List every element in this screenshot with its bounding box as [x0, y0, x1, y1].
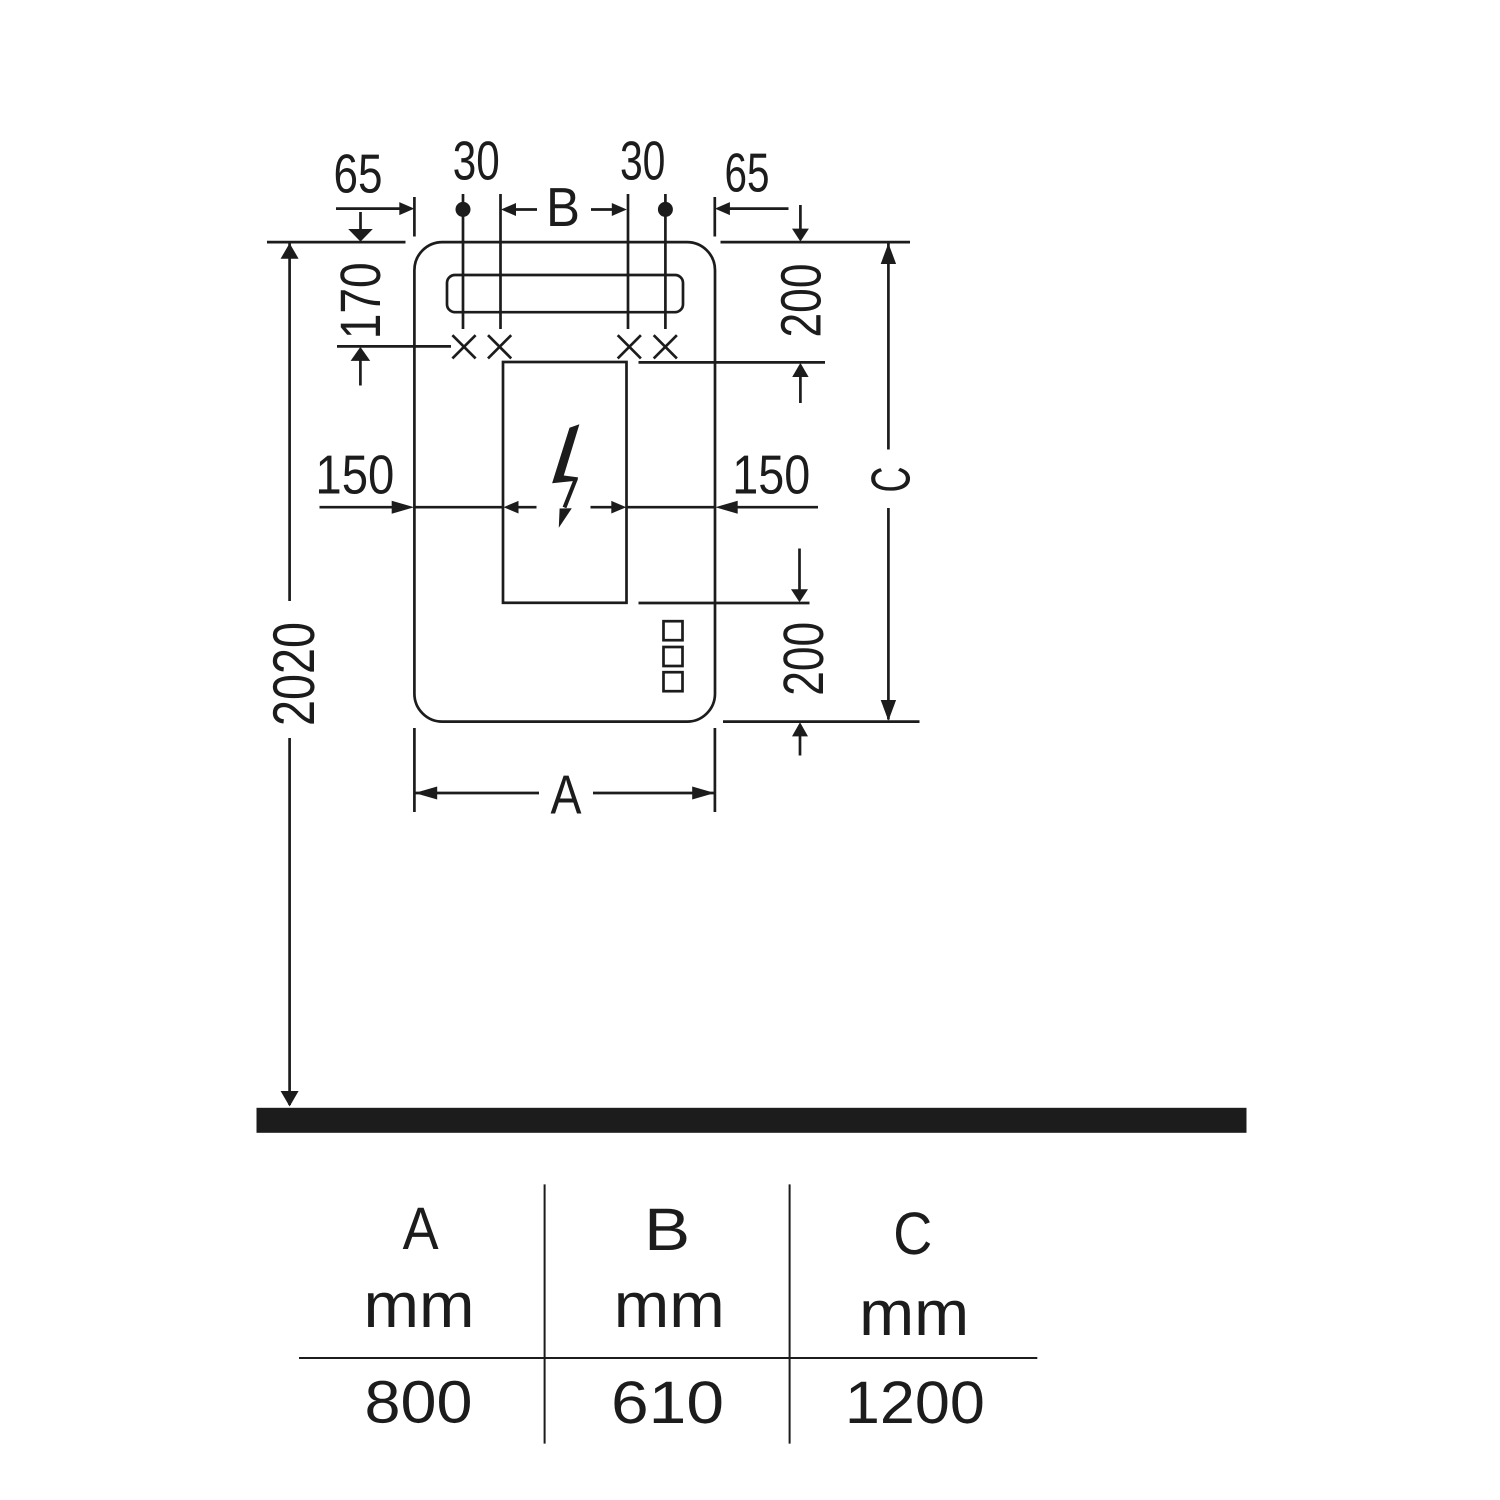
- dim line 65 left: [336, 197, 414, 237]
- hanger dot left: [456, 202, 471, 217]
- down arrow right at reference line: [792, 205, 809, 242]
- svg-text:1200: 1200: [845, 1369, 985, 1436]
- control button 1: [664, 621, 683, 640]
- dim line 170: [337, 346, 451, 385]
- junction box: [503, 362, 627, 603]
- drill line 4: [664, 194, 667, 329]
- svg-text:B: B: [644, 1196, 690, 1263]
- control button 3: [664, 672, 683, 691]
- drill line 1: [462, 194, 465, 329]
- svg-text:A: A: [403, 1195, 439, 1262]
- table header rule: [299, 1357, 1037, 1359]
- fixing mark X1: [452, 335, 475, 358]
- dim line 200 top: [639, 362, 826, 403]
- drill line 2: [499, 194, 502, 329]
- svg-text:mm: mm: [859, 1277, 969, 1349]
- svg-text:150: 150: [732, 444, 810, 506]
- dim line 2020: [281, 243, 299, 1106]
- svg-text:200: 200: [770, 264, 834, 338]
- junction box arrow left: [504, 501, 537, 514]
- svg-text:610: 610: [611, 1369, 724, 1436]
- light strip slot: [447, 275, 683, 312]
- svg-text:C: C: [893, 1200, 932, 1267]
- down arrow left at reference line: [348, 212, 373, 242]
- dim line 65 right: [715, 197, 789, 237]
- svg-text:800: 800: [365, 1369, 473, 1436]
- control button 2: [664, 647, 683, 666]
- table column separator 1: [544, 1184, 546, 1443]
- svg-text:65: 65: [725, 142, 770, 204]
- svg-text:B: B: [546, 176, 580, 238]
- floor line: [257, 1108, 1247, 1133]
- svg-text:mm: mm: [614, 1269, 725, 1341]
- svg-text:C: C: [860, 467, 922, 493]
- fixing mark X4: [654, 335, 677, 358]
- svg-text:200: 200: [772, 622, 836, 696]
- svg-text:30: 30: [620, 130, 666, 192]
- junction box arrow right: [591, 501, 627, 514]
- svg-text:mm: mm: [364, 1269, 475, 1341]
- dim line 150 right: [627, 501, 819, 514]
- svg-text:30: 30: [453, 130, 500, 192]
- svg-text:150: 150: [315, 444, 394, 506]
- fixing mark X2: [488, 335, 511, 358]
- drill line 3: [627, 194, 630, 329]
- dim line B: [501, 203, 627, 216]
- lightning bolt symbol: [552, 424, 579, 528]
- svg-text:65: 65: [334, 143, 383, 205]
- mirror bottom extension line: [723, 720, 920, 723]
- table column separator 2: [789, 1184, 791, 1443]
- fixing mark X3: [618, 335, 641, 358]
- dim line A: [414, 728, 715, 812]
- svg-text:A: A: [551, 764, 582, 826]
- dim line 200 bottom: [639, 549, 810, 604]
- svg-text:2020: 2020: [261, 622, 327, 726]
- dim line C: [881, 243, 896, 721]
- up arrow below mirror bottom: [792, 722, 808, 755]
- dim line 150 left: [320, 501, 504, 514]
- hanger dot right: [658, 202, 673, 217]
- top reference line left: [267, 241, 406, 244]
- mirror outline: [414, 242, 715, 721]
- top reference line right: [721, 241, 911, 244]
- svg-text:170: 170: [329, 262, 393, 339]
